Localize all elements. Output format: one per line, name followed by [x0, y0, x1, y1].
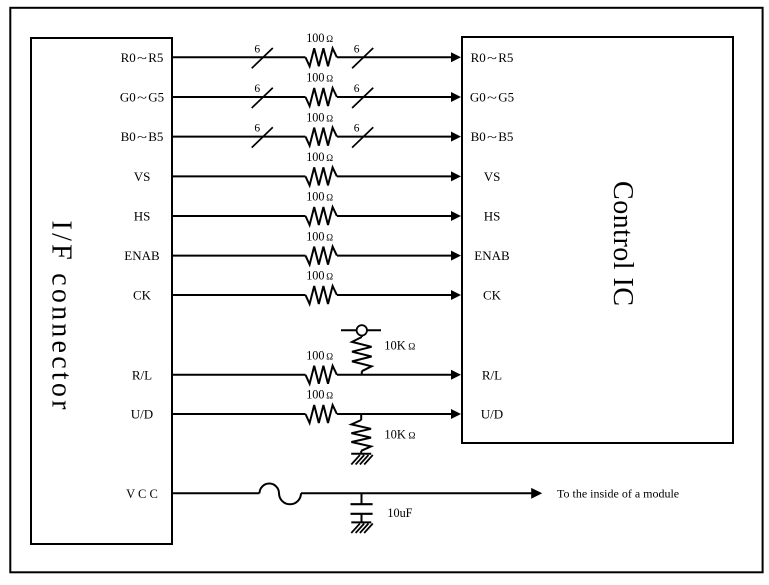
pin B0~B5 on Control IC: [471, 129, 514, 144]
svg-text:6: 6: [254, 43, 260, 55]
wire G right segment: [337, 96, 453, 98]
wire G left segment: [172, 96, 306, 98]
resistor value label 100 ohm (CK): [306, 269, 333, 283]
wire HS left segment: [172, 215, 306, 217]
svg-text:6: 6: [354, 123, 360, 135]
svg-text:V C C: V C C: [126, 487, 158, 501]
arrowhead to module (VCC): [531, 488, 542, 499]
svg-text:100Ω: 100Ω: [306, 110, 333, 124]
svg-text:100Ω: 100Ω: [306, 190, 333, 204]
svg-text:100Ω: 100Ω: [306, 269, 333, 283]
pin HS on Control IC: [484, 209, 501, 224]
svg-text:CK: CK: [483, 288, 502, 303]
ground below pull-down resistor: [351, 454, 373, 465]
pin G0~G5 on I/F connector: [120, 90, 164, 105]
wire VS left segment: [172, 175, 306, 177]
pin CK on Control IC: [483, 288, 502, 303]
pin VS on I/F connector: [134, 169, 151, 184]
arrowhead into Control IC (VS): [451, 171, 461, 181]
resistor value label 10K ohm (pull-up): [384, 339, 415, 353]
arrowhead into Control IC (HS): [451, 211, 461, 221]
svg-text:6: 6: [254, 123, 260, 135]
svg-text:G0~G5: G0~G5: [470, 90, 514, 105]
svg-text:100Ω: 100Ω: [306, 71, 333, 85]
pin R/L on Control IC: [482, 367, 502, 382]
svg-text:VS: VS: [484, 169, 501, 184]
pin VS on Control IC: [484, 169, 501, 184]
wire R/L right segment: [337, 374, 453, 376]
resistor 100 ohm on U/D line: [306, 405, 337, 423]
wire R/L left segment: [172, 374, 306, 376]
svg-text:6: 6: [254, 83, 260, 95]
arrowhead into Control IC (CK): [451, 290, 461, 300]
bus width label 6 (right, B): [354, 123, 360, 135]
resistor value label 100 ohm (VS): [306, 150, 333, 164]
wire VCC right segment: [301, 492, 533, 494]
svg-text:To the inside of a module: To the inside of a module: [557, 487, 679, 501]
pin U/D on I/F connector: [131, 407, 153, 422]
wire CK left segment: [172, 294, 306, 296]
arrowhead into Control IC (G): [451, 92, 461, 102]
resistor value label 100 ohm (B): [306, 110, 333, 124]
Control IC box title: [607, 181, 638, 306]
svg-text:ENAB: ENAB: [124, 248, 160, 263]
arrowhead into Control IC (R): [451, 52, 461, 62]
arrowhead into Control IC (B): [451, 132, 461, 142]
resistor value label 100 ohm (U/D): [306, 388, 333, 402]
svg-text:HS: HS: [484, 209, 501, 224]
resistor 100 ohm on HS line: [306, 207, 337, 225]
resistor 100 ohm on R line: [306, 48, 337, 66]
svg-text:6: 6: [354, 43, 360, 55]
svg-text:G0~G5: G0~G5: [120, 90, 164, 105]
resistor value label 100 ohm (HS): [306, 190, 333, 204]
ground below capacitor: [351, 522, 373, 533]
svg-text:CK: CK: [133, 288, 152, 303]
svg-text:R0~R5: R0~R5: [121, 50, 164, 65]
wire CK right segment: [337, 294, 453, 296]
resistor 100 ohm on B line: [306, 128, 337, 146]
bus slash left on R line: [252, 48, 273, 68]
pin G0~G5 on Control IC: [470, 90, 514, 105]
wire ENAB right segment: [337, 255, 453, 257]
wire B left segment: [172, 136, 306, 138]
wire R left segment: [172, 56, 306, 58]
svg-text:R/L: R/L: [132, 367, 152, 382]
wire U/D left segment: [172, 413, 306, 415]
wire ENAB left segment: [172, 255, 306, 257]
bus slash left on G line: [252, 88, 273, 108]
svg-text:B0~B5: B0~B5: [471, 129, 514, 144]
pin CK on I/F connector: [133, 288, 152, 303]
wire U/D right segment: [337, 413, 453, 415]
bus slash right on R line: [352, 48, 373, 68]
wire HS right segment: [337, 215, 453, 217]
svg-text:Control IC: Control IC: [607, 181, 638, 306]
svg-text:HS: HS: [134, 209, 151, 224]
resistor value label 100 ohm (ENAB): [306, 229, 333, 243]
bus slash right on B line: [352, 127, 373, 147]
Control IC box U2: [462, 37, 733, 443]
svg-text:VS: VS: [134, 169, 151, 184]
arrowhead into Control IC (R/L): [451, 370, 461, 380]
resistor value label 100 ohm (G): [306, 71, 333, 85]
svg-text:100Ω: 100Ω: [306, 388, 333, 402]
bus width label 6 (left, R): [254, 43, 260, 55]
resistor 100 ohm on G line: [306, 88, 337, 106]
svg-text:6: 6: [354, 83, 360, 95]
wire VCC left segment: [172, 492, 260, 494]
I/F connector box U1: [31, 38, 172, 544]
svg-text:100Ω: 100Ω: [306, 150, 333, 164]
label To the inside of a module: [557, 487, 679, 501]
bus slash left on B line: [252, 127, 273, 147]
wire B right segment: [337, 136, 453, 138]
bus slash right on G line: [352, 88, 373, 108]
svg-text:100Ω: 100Ω: [306, 31, 333, 45]
pin ENAB on Control IC: [474, 248, 510, 263]
wire VS right segment: [337, 175, 453, 177]
power rail symbol (circle) for pull-up: [341, 325, 381, 335]
pin U/D on Control IC: [481, 407, 503, 422]
resistor 10K ohm pull-down on U/D: [351, 414, 371, 454]
svg-text:U/D: U/D: [481, 407, 503, 422]
bus width label 6 (right, R): [354, 43, 360, 55]
wire R right segment: [337, 56, 453, 58]
arrowhead into Control IC (ENAB): [451, 251, 461, 261]
pin R0~R5 on Control IC: [471, 50, 514, 65]
bus width label 6 (left, G): [254, 83, 260, 95]
resistor value label 10K ohm (pull-down): [384, 428, 415, 442]
resistor value label 100 ohm (R): [306, 31, 333, 45]
pin HS on I/F connector: [134, 209, 151, 224]
pin B0~B5 on I/F connector: [121, 129, 164, 144]
svg-text:R0~R5: R0~R5: [471, 50, 514, 65]
svg-text:100Ω: 100Ω: [306, 349, 333, 363]
resistor 100 ohm on VS line: [306, 167, 337, 185]
svg-text:U/D: U/D: [131, 407, 153, 422]
bus width label 6 (left, B): [254, 123, 260, 135]
resistor 10K ohm pull-up on R/L: [352, 336, 372, 375]
resistor value label 100 ohm (R/L): [306, 349, 333, 363]
I/F connector box title: [46, 221, 77, 411]
pin R0~R5 on I/F connector: [121, 50, 164, 65]
pin R/L on I/F connector: [132, 367, 152, 382]
capacitor 10uF on VCC: [351, 493, 373, 522]
ferrite bead FB on VCC: [260, 484, 302, 505]
bus width label 6 (right, G): [354, 83, 360, 95]
svg-text:R/L: R/L: [482, 367, 502, 382]
arrowhead into Control IC (U/D): [451, 409, 461, 419]
svg-text:10uF: 10uF: [387, 506, 412, 520]
resistor 100 ohm on R/L line: [306, 366, 337, 384]
svg-text:ENAB: ENAB: [474, 248, 510, 263]
resistor 100 ohm on ENAB line: [306, 247, 337, 265]
svg-text:100Ω: 100Ω: [306, 229, 333, 243]
pin ENAB on I/F connector: [124, 248, 160, 263]
svg-text:B0~B5: B0~B5: [121, 129, 164, 144]
pin V C C on I/F connector: [126, 487, 158, 501]
resistor 100 ohm on CK line: [306, 286, 337, 304]
capacitor value label 10uF: [387, 506, 412, 520]
